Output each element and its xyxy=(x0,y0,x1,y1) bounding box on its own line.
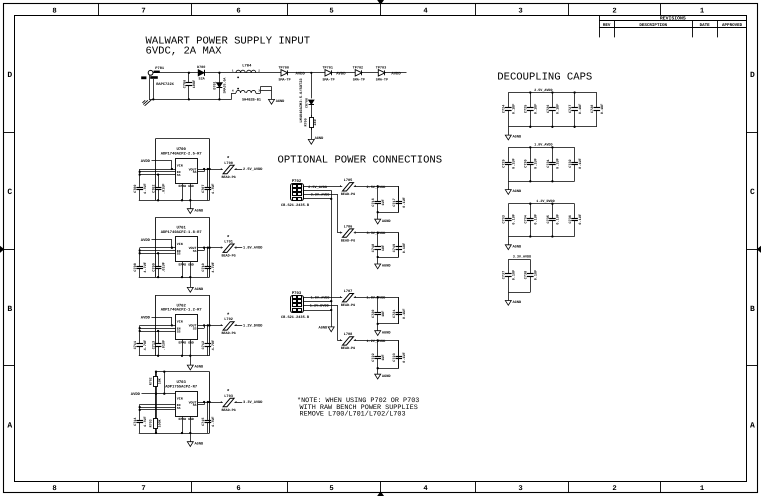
svg-text:3.3V_AVDD: 3.3V_AVDD xyxy=(243,400,263,405)
ground AGND header returns xyxy=(319,326,335,332)
svg-text:4.7UF: 4.7UF xyxy=(143,340,148,351)
svg-text:EPAD GND: EPAD GND xyxy=(179,263,194,267)
op-amp regulator IC symbol U701 xyxy=(176,237,198,267)
svg-text:C720: C720 xyxy=(371,310,376,318)
op-amp regulator IC symbol U703 xyxy=(176,392,198,421)
svg-text:0.1UF: 0.1UF xyxy=(512,158,517,169)
svg-text:AGND: AGND xyxy=(195,441,204,446)
net label AVDD input U700 xyxy=(141,159,151,164)
svg-text:AGND: AGND xyxy=(195,208,204,213)
capacitor C730 decoupling xyxy=(524,146,539,182)
svg-text:C706: C706 xyxy=(182,80,187,88)
svg-text:CB.S21.2435.B: CB.S21.2435.B xyxy=(281,315,310,320)
svg-text:R702: R702 xyxy=(148,377,152,385)
ferrite bead jumper L706 xyxy=(340,224,357,243)
svg-text:AGND: AGND xyxy=(195,365,204,370)
svg-text:1: 1 xyxy=(700,7,705,15)
svg-text:2: 2 xyxy=(354,231,356,234)
svg-text:C733: C733 xyxy=(502,215,507,223)
wire jumper output L701 xyxy=(234,247,242,249)
connector P701 barrel jack xyxy=(141,66,174,87)
testpoint TP703 xyxy=(376,65,388,82)
svg-text:1.8V_AVDD: 1.8V_AVDD xyxy=(311,296,330,301)
svg-text:SS: SS xyxy=(177,329,181,333)
net label AVDD input U703 xyxy=(131,392,141,397)
center alignment arrow top xyxy=(378,0,384,15)
svg-text:BEAD-PG: BEAD-PG xyxy=(341,192,355,197)
wire ground bus vertical P702 P703 xyxy=(330,190,332,327)
svg-text:10UF: 10UF xyxy=(192,80,197,88)
wire P703 row2 ground xyxy=(303,301,331,303)
ground AGND decoupling 1.2V_DVDD xyxy=(505,237,522,250)
capacitor C717 xyxy=(392,186,407,212)
svg-text:4.7UF: 4.7UF xyxy=(211,340,216,351)
svg-text:BEAD-PG: BEAD-PG xyxy=(221,408,235,413)
svg-text:3.3V_AVDD: 3.3V_AVDD xyxy=(311,193,330,198)
svg-text:4.7UF: 4.7UF xyxy=(143,183,148,194)
svg-text:C722: C722 xyxy=(371,353,376,361)
svg-text:6VDC, 2A MAX: 6VDC, 2A MAX xyxy=(146,46,223,58)
ground AGND decoupling 1.8V_AVDD xyxy=(505,181,522,194)
svg-text:5: 5 xyxy=(329,7,333,15)
capacitor C714 input U703 xyxy=(133,416,148,433)
svg-text:AVDD: AVDD xyxy=(141,159,151,164)
svg-text:0.1UF: 0.1UF xyxy=(600,104,605,115)
svg-text:REVISIONS: REVISIONS xyxy=(660,15,686,21)
resistor R702 pullup U703 xyxy=(148,371,161,394)
svg-text:L704: L704 xyxy=(242,64,252,69)
svg-text:C734: C734 xyxy=(524,215,529,223)
svg-text:C716: C716 xyxy=(371,198,376,206)
svg-text:VIN: VIN xyxy=(177,242,183,246)
svg-text:10K: 10K xyxy=(158,378,162,384)
svg-text:.01UF: .01UF xyxy=(161,262,166,273)
title text DECOUPLING CAPS xyxy=(497,71,592,83)
wire cap ground rail L705 group xyxy=(377,211,399,213)
wire cap ground rail L708 group xyxy=(377,367,399,369)
svg-text:BEAD-PG: BEAD-PG xyxy=(341,303,355,308)
capacitor C720 xyxy=(371,297,386,324)
svg-text:SS: SS xyxy=(193,327,197,331)
svg-text:U703: U703 xyxy=(177,380,187,385)
svg-text:6: 6 xyxy=(236,7,240,15)
svg-text:2: 2 xyxy=(612,7,616,15)
svg-text:AGND: AGND xyxy=(382,374,391,379)
voltage regulator U7 block outer box U703 xyxy=(155,372,209,434)
svg-text:0.1UF: 0.1UF xyxy=(556,158,561,169)
svg-text:EPAD GND: EPAD GND xyxy=(179,184,194,188)
svg-text:0.1UF: 0.1UF xyxy=(556,104,561,115)
svg-text:A: A xyxy=(7,422,12,431)
svg-text:SMA-TP: SMA-TP xyxy=(376,77,388,82)
svg-text:L700: L700 xyxy=(224,161,233,166)
svg-text:C715: C715 xyxy=(201,417,206,425)
svg-text:C707: C707 xyxy=(201,184,206,192)
wire AVDD entry U700 xyxy=(152,161,172,170)
svg-text:C729: C729 xyxy=(502,159,507,167)
svg-text:1: 1 xyxy=(220,324,222,327)
svg-text:2: 2 xyxy=(258,69,260,72)
svg-text:4: 4 xyxy=(423,485,428,493)
svg-text:AVDD: AVDD xyxy=(141,316,151,321)
svg-text:RAPC722X: RAPC722X xyxy=(156,82,174,87)
svg-text:C711: C711 xyxy=(133,341,138,349)
svg-text:OPTIONAL POWER CONNECTIONS: OPTIONAL POWER CONNECTIONS xyxy=(278,155,443,167)
capacitor C702 bypass xyxy=(152,175,167,202)
wire L707 output xyxy=(354,296,399,298)
svg-text:VIN: VIN xyxy=(177,320,183,324)
ground AGND choke return xyxy=(269,99,286,104)
wire EPAD to ground rail U702 xyxy=(181,340,192,357)
svg-text:2: 2 xyxy=(235,247,237,250)
svg-text:B: B xyxy=(7,305,12,314)
zone numbers bottom xyxy=(52,485,705,493)
svg-text:D: D xyxy=(750,71,755,80)
wire AVDD entry U703 xyxy=(142,393,176,395)
svg-text:AVDD: AVDD xyxy=(131,392,141,397)
svg-text:.01UF: .01UF xyxy=(161,183,166,194)
svg-text:AGND: AGND xyxy=(276,99,285,104)
svg-text:SS: SS xyxy=(177,173,181,177)
wire P703 row4 ground xyxy=(303,310,331,312)
svg-text:C725: C725 xyxy=(524,105,529,113)
wire jumper output L700 xyxy=(234,169,242,171)
svg-text:1UF: 1UF xyxy=(381,311,386,317)
svg-text:3: 3 xyxy=(518,485,522,493)
svg-text:B: B xyxy=(750,305,755,314)
svg-text:AVDD: AVDD xyxy=(336,71,346,76)
capacitor C707 output xyxy=(201,169,216,200)
net label 1.2V_DVDD xyxy=(243,323,263,328)
svg-text:3.3V_AVDD: 3.3V_AVDD xyxy=(367,231,386,236)
svg-text:C710: C710 xyxy=(201,263,206,271)
svg-text:AGND: AGND xyxy=(382,264,391,269)
svg-text:VIN: VIN xyxy=(177,163,183,167)
svg-text:AGND: AGND xyxy=(315,136,324,141)
voltage regulator U7 block outer box U702 xyxy=(155,295,209,356)
zone divider ticks right band xyxy=(747,133,758,366)
net label 3.3V_AVDD decoupling xyxy=(513,255,531,260)
svg-text:L708: L708 xyxy=(344,332,353,337)
svg-text:AGND: AGND xyxy=(382,330,391,335)
wire input pin rows U701 xyxy=(139,247,176,265)
svg-text:P701: P701 xyxy=(155,66,165,71)
svg-text:0.1UF: 0.1UF xyxy=(534,158,539,169)
svg-text:C717: C717 xyxy=(392,198,397,206)
capacitor C719 xyxy=(392,233,407,257)
capacitor C712 output xyxy=(201,325,216,355)
net label 2.5V_AVDD xyxy=(243,167,263,172)
svg-text:C727: C727 xyxy=(568,105,573,113)
svg-text:D: D xyxy=(7,71,12,80)
svg-text:L703: L703 xyxy=(224,394,233,399)
op-amp regulator IC symbol U700 xyxy=(176,159,198,188)
svg-text:1: 1 xyxy=(220,247,222,250)
zone divider ticks left band xyxy=(4,133,15,366)
inductor L704 common mode choke xyxy=(232,64,261,103)
svg-text:BEAD-PG: BEAD-PG xyxy=(221,254,235,259)
svg-text:R700: R700 xyxy=(303,118,308,126)
capacitor C735 decoupling xyxy=(546,203,561,238)
svg-text:2.5V_AVDD: 2.5V_AVDD xyxy=(367,185,386,190)
capacitor C725 decoupling xyxy=(524,91,539,128)
capacitor C706 input bulk xyxy=(182,72,197,101)
capacitor C724 decoupling xyxy=(502,93,517,127)
connector P703 header xyxy=(281,291,310,320)
svg-text:ADP1740ACPZ-1.2-R7: ADP1740ACPZ-1.2-R7 xyxy=(161,308,203,313)
svg-text:AGND: AGND xyxy=(513,244,522,249)
svg-text:C713: C713 xyxy=(152,341,157,349)
ferrite bead jumper L703 xyxy=(220,388,237,413)
svg-text:AGND: AGND xyxy=(513,135,522,140)
ferrite bead jumper L701 xyxy=(220,234,237,259)
zone numbers top xyxy=(52,7,705,15)
wire cap ground rail L707 group xyxy=(377,323,399,325)
testpoint TP702 xyxy=(353,65,365,82)
svg-text:CR700: CR700 xyxy=(305,98,309,108)
svg-text:S2A: S2A xyxy=(199,77,206,82)
svg-text:1UF: 1UF xyxy=(381,199,386,205)
wire P703 row3 to L708 xyxy=(303,305,342,341)
capacitor C716 xyxy=(371,186,386,212)
capacitor C731 decoupling xyxy=(546,146,561,182)
svg-text:C731: C731 xyxy=(546,159,551,167)
svg-text:ADP1755ACPZ-R7: ADP1755ACPZ-R7 xyxy=(165,384,198,389)
capacitor C738 decoupling xyxy=(524,259,539,292)
svg-text:4.7UF: 4.7UF xyxy=(211,183,216,194)
svg-text:C726: C726 xyxy=(546,105,551,113)
net label AVDD after TP700 xyxy=(296,71,306,76)
svg-text:C735: C735 xyxy=(546,215,551,223)
svg-text:DATE: DATE xyxy=(700,23,711,28)
ferrite bead jumper L702 xyxy=(220,312,237,337)
wire bottom ground rail U700 xyxy=(139,200,210,202)
wire L706 output xyxy=(354,231,399,233)
svg-text:DECOUPLING CAPS: DECOUPLING CAPS xyxy=(497,71,592,83)
capacitor C709 bypass xyxy=(152,253,167,278)
svg-text:1.8V_AVDD: 1.8V_AVDD xyxy=(367,296,386,301)
wire input pin rows U700 xyxy=(139,168,176,186)
svg-text:C738: C738 xyxy=(524,271,529,279)
svg-text:AGND: AGND xyxy=(319,326,328,331)
svg-text:C: C xyxy=(750,188,755,197)
net label 2.5V_AVDD at P702 xyxy=(308,185,327,190)
svg-text:0.1UF: 0.1UF xyxy=(402,308,407,319)
wire bottom ground rail U702 xyxy=(139,355,210,357)
svg-text:4.7UF: 4.7UF xyxy=(211,416,216,427)
svg-text:8: 8 xyxy=(52,7,56,15)
svg-text:C712: C712 xyxy=(201,341,206,349)
svg-text:3.3V_AVDD: 3.3V_AVDD xyxy=(513,255,531,260)
svg-text:SMA-TP: SMA-TP xyxy=(322,77,334,82)
svg-text:0.1UF: 0.1UF xyxy=(578,214,583,225)
testpoint TP700 xyxy=(278,65,290,82)
svg-text:AGND: AGND xyxy=(382,219,391,224)
svg-text:4: 4 xyxy=(423,7,428,15)
svg-text:SMA-TP: SMA-TP xyxy=(353,77,365,82)
wire AVDD entry U701 xyxy=(152,240,172,248)
svg-text:ADP1740ACPZ-2.5-R7: ADP1740ACPZ-2.5-R7 xyxy=(161,151,203,156)
svg-text:R703: R703 xyxy=(148,419,152,427)
net label 2.5V_AVDD xyxy=(367,185,386,190)
svg-text:C723: C723 xyxy=(392,353,397,361)
net label AVDD input U702 xyxy=(141,316,151,321)
svg-text:0.1UF: 0.1UF xyxy=(534,270,539,281)
svg-text:100K: 100K xyxy=(158,419,162,427)
svg-text:4.7UF: 4.7UF xyxy=(211,262,216,273)
svg-text:1: 1 xyxy=(340,185,342,188)
svg-text:U701: U701 xyxy=(177,226,187,231)
wire choke secondary to AGND xyxy=(256,87,272,100)
wire EPAD to ground rail U701 xyxy=(181,262,192,278)
svg-text:L702: L702 xyxy=(224,317,233,322)
svg-text:AGND: AGND xyxy=(513,189,522,194)
svg-text:1: 1 xyxy=(340,339,342,342)
net label 1.2V_DVDD xyxy=(367,339,386,344)
voltage regulator U7 block outer box U700 xyxy=(155,139,209,201)
net label AVDD after TP701 xyxy=(336,71,346,76)
title text WALWART POWER SUPPLY INPUT xyxy=(146,35,311,57)
svg-text:APPROVED: APPROVED xyxy=(722,23,743,28)
wire output U702 xyxy=(198,324,223,328)
center alignment arrow left xyxy=(0,246,4,252)
svg-text:C736: C736 xyxy=(568,215,573,223)
center alignment arrow bottom xyxy=(378,481,384,496)
ground AGND U702 xyxy=(187,356,204,370)
capacitor C728 decoupling xyxy=(590,93,605,127)
ferrite bead jumper L700 xyxy=(220,155,237,180)
wire LM4040 branch vertical xyxy=(311,73,313,117)
svg-text:SS: SS xyxy=(177,252,181,256)
wire input pin rows U702 xyxy=(139,324,176,342)
svg-text:C728: C728 xyxy=(590,105,595,113)
capacitor C737 decoupling xyxy=(502,259,517,292)
svg-text:2.5V_AVDD: 2.5V_AVDD xyxy=(308,185,327,190)
wire output U700 xyxy=(198,168,223,172)
svg-text:BEAD-PG: BEAD-PG xyxy=(221,331,235,336)
capacitor C718 xyxy=(371,233,386,257)
svg-text:AVDD: AVDD xyxy=(141,238,151,243)
net label 3.3V_AVDD xyxy=(367,231,386,236)
svg-text:7: 7 xyxy=(141,485,145,493)
zone divider ticks bottom band xyxy=(99,481,661,493)
svg-text:BEAD-PG: BEAD-PG xyxy=(341,238,355,243)
svg-text:C702: C702 xyxy=(152,184,157,192)
wire P702 row3 to L706 xyxy=(303,194,342,233)
svg-text:C708: C708 xyxy=(133,263,138,271)
svg-text:SS: SS xyxy=(193,249,197,253)
net label 1.8V_AVDD xyxy=(367,296,386,301)
wire P703 row1 to L707 xyxy=(303,297,342,299)
capacitor C722 xyxy=(371,340,386,368)
svg-text:1: 1 xyxy=(340,296,342,299)
svg-text:EPAD GND: EPAD GND xyxy=(179,340,194,344)
svg-text:4: 4 xyxy=(232,90,234,93)
node junction rail to LM4040 branch xyxy=(310,72,312,74)
svg-text:REMOVE L700/L701/L702/L703: REMOVE L700/L701/L702/L703 xyxy=(300,411,406,419)
diode D700 series xyxy=(197,65,206,81)
net label 1.2V_DVDD decoupling xyxy=(536,199,554,204)
net label AVDD input U701 xyxy=(141,238,151,243)
svg-text:SH4B2B-B1: SH4B2B-B1 xyxy=(242,98,261,103)
wire decoupling rail 1.2V_DVDD xyxy=(508,204,574,237)
net label 1.8V_AVDD decoupling xyxy=(534,143,552,148)
svg-text:0.1UF: 0.1UF xyxy=(512,104,517,115)
svg-text:5: 5 xyxy=(329,485,333,493)
svg-text:VIN: VIN xyxy=(177,396,183,400)
svg-text:D701: D701 xyxy=(213,81,218,89)
note text about P702 P703 bench supplies xyxy=(297,397,419,418)
svg-text:1.2V_DVDD: 1.2V_DVDD xyxy=(243,323,263,328)
testpoint TP701 xyxy=(322,65,334,82)
svg-text:C718: C718 xyxy=(371,244,376,252)
svg-text:TP702: TP702 xyxy=(353,65,364,70)
wire input pin rows U703 xyxy=(139,404,176,419)
title text OPTIONAL POWER CONNECTIONS xyxy=(278,155,443,167)
capacitor C710 output xyxy=(201,248,216,277)
capacitor C732 decoupling xyxy=(568,147,583,181)
svg-text:BEAD-PG: BEAD-PG xyxy=(341,346,355,351)
svg-text:4.7UF: 4.7UF xyxy=(143,416,148,427)
ground AGND decoupling 3.3V_AVDD xyxy=(505,292,522,305)
wire P701 ground drops xyxy=(149,75,232,100)
diode D701 TVS shunt xyxy=(213,72,227,101)
ground AGND L705 group xyxy=(375,212,392,224)
net label 1.8V_AVDD xyxy=(243,246,263,251)
wire decoupling rail 2.5V_AVDD xyxy=(508,93,597,127)
svg-text:0.1UF: 0.1UF xyxy=(578,104,583,115)
zone divider ticks top band xyxy=(99,4,661,16)
svg-text:1.2V_DVDD: 1.2V_DVDD xyxy=(367,339,386,344)
net label 3.3V_AVDD xyxy=(243,400,263,405)
svg-text:1: 1 xyxy=(700,485,705,493)
zone letters right xyxy=(750,71,755,431)
capacitor C733 decoupling xyxy=(502,204,517,237)
svg-text:DESCRIPTION: DESCRIPTION xyxy=(639,23,667,28)
ground AGND L707 group xyxy=(375,324,392,336)
net label 3.3V_AVDD at P702 xyxy=(311,193,330,198)
wire decoupling rail 1.8V_AVDD xyxy=(508,148,574,182)
svg-text:1UF: 1UF xyxy=(381,354,386,360)
capacitor C713 bypass xyxy=(152,331,167,357)
svg-text:C732: C732 xyxy=(568,159,573,167)
svg-text:ADP1740ACPZ-1.8-R7: ADP1740ACPZ-1.8-R7 xyxy=(161,230,203,235)
connector P702 header xyxy=(281,179,310,208)
svg-text:TP701: TP701 xyxy=(322,65,333,70)
svg-text:SS: SS xyxy=(177,406,181,410)
net label 2.5V_AVDD decoupling xyxy=(534,88,552,93)
svg-text:SMA-TP: SMA-TP xyxy=(278,77,290,82)
svg-text:U700: U700 xyxy=(177,147,187,152)
capacitor C711 input xyxy=(133,340,148,356)
svg-text:C721: C721 xyxy=(392,310,397,318)
zone letters left xyxy=(7,71,12,431)
svg-text:CB.S21.2435.B: CB.S21.2435.B xyxy=(281,203,310,208)
diode CR700 LM4040 reference xyxy=(299,78,314,123)
wire top rail from P701 xyxy=(153,72,407,74)
svg-text:2.5V_AVDD: 2.5V_AVDD xyxy=(534,88,552,93)
wire EPAD to ground rail U703 xyxy=(181,416,192,434)
svg-text:3: 3 xyxy=(518,7,522,15)
svg-text:1: 1 xyxy=(220,168,222,171)
ground AGND LM4040 branch xyxy=(308,127,324,144)
svg-text:1.8V_AVDD: 1.8V_AVDD xyxy=(534,143,552,148)
capacitor C721 xyxy=(392,297,407,324)
svg-text:L701: L701 xyxy=(224,240,233,245)
svg-text:1.8V_AVDD: 1.8V_AVDD xyxy=(243,246,263,251)
resistor R703 pulldown U703 xyxy=(148,394,161,434)
svg-text:0.1UF: 0.1UF xyxy=(512,270,517,281)
